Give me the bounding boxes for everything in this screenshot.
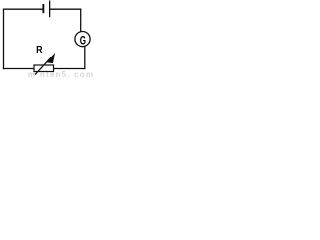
- wire: right lower vertical: [84, 46, 86, 70]
- watermark text: [28, 70, 93, 79]
- battery cell: short thick plate (negative): [42, 4, 44, 13]
- svg-text:R: R: [36, 44, 42, 56]
- wire: right upper vertical: [80, 9, 82, 32]
- wire: left vertical: [3, 9, 5, 70]
- wire: top right segment: [50, 8, 81, 10]
- battery cell: long thin plate (positive): [49, 1, 50, 18]
- svg-text:G: G: [80, 35, 86, 48]
- wire: top left segment: [3, 8, 43, 10]
- rheostat R1: arrow shaft: [35, 57, 51, 74]
- rheostat R1: arrowhead: [46, 53, 55, 63]
- galvanometer U1: circle: [75, 31, 90, 46]
- background: [0, 0, 96, 78]
- wire: bottom: [3, 68, 86, 70]
- rheostat R1: resistor box: [34, 65, 54, 72]
